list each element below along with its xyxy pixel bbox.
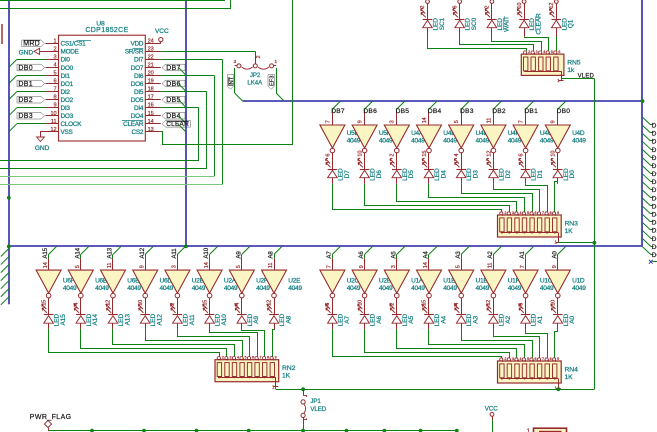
svg-text:A8: A8 xyxy=(285,315,292,323)
junction bottom rail JP1 xyxy=(301,429,305,432)
pin 6 (DO1) of U8 xyxy=(46,79,74,88)
bus entry + net label A15 xyxy=(42,246,56,258)
junction on left bus xyxy=(7,196,11,200)
svg-text:4049: 4049 xyxy=(379,285,393,292)
svg-text:5: 5 xyxy=(53,71,56,77)
net label INT (vertical, at JP2) xyxy=(227,75,235,90)
svg-text:2: 2 xyxy=(53,46,56,52)
svg-text:4049: 4049 xyxy=(127,285,141,292)
svg-text:2: 2 xyxy=(222,356,224,360)
svg-text:9: 9 xyxy=(139,265,145,268)
inverter U4C (4049) xyxy=(513,125,538,153)
LED A15 xyxy=(42,304,67,329)
inverter U1D output pin xyxy=(551,298,558,312)
svg-text:VLED: VLED xyxy=(578,74,595,80)
svg-text:VSS: VSS xyxy=(61,129,73,136)
svg-text:6: 6 xyxy=(252,356,254,360)
LED A13 xyxy=(106,304,131,329)
svg-text:A6: A6 xyxy=(376,315,383,323)
net label DB6 (U8 right) + bus entry xyxy=(162,80,186,91)
svg-text:Q1: Q1 xyxy=(568,19,575,28)
wire LED D4 to RN3 pin 5 xyxy=(429,184,525,212)
svg-text:MODE: MODE xyxy=(61,49,79,56)
wire LED A8 to RN2 pin 9 xyxy=(273,329,275,356)
svg-text:D1: D1 xyxy=(537,170,544,179)
svg-text:A15: A15 xyxy=(42,247,49,258)
LED A11 xyxy=(171,304,196,329)
svg-text:A4: A4 xyxy=(440,315,447,323)
bus entry right edge xyxy=(643,142,657,154)
value label U6E 4049 xyxy=(127,278,141,292)
svg-text:6: 6 xyxy=(535,357,537,361)
inverter U2A output pin xyxy=(202,298,209,312)
svg-text:A3: A3 xyxy=(455,251,462,259)
inverter U1E (4049) xyxy=(417,270,442,298)
svg-text:3: 3 xyxy=(172,265,178,268)
inverter U2A (4049) xyxy=(197,270,222,298)
power flag PWR_FLAG xyxy=(30,414,72,431)
inverter U2C output pin xyxy=(325,298,332,312)
svg-text:D2: D2 xyxy=(505,170,512,179)
svg-text:1K: 1K xyxy=(565,228,574,235)
svg-text:4049: 4049 xyxy=(411,138,425,145)
svg-text:5: 5 xyxy=(527,357,529,361)
svg-text:4049: 4049 xyxy=(572,138,586,145)
svg-text:8: 8 xyxy=(53,95,56,101)
wire RN4 common to rail xyxy=(558,387,560,390)
bus entry + net label DB3 xyxy=(460,101,474,115)
value label U4C 4049 xyxy=(540,130,554,144)
svg-text:A1: A1 xyxy=(519,251,526,259)
bus entry left bus bottom xyxy=(1,273,9,281)
svg-text:23: 23 xyxy=(148,46,154,52)
svg-text:CDP1852CE: CDP1852CE xyxy=(85,27,128,34)
pin 10 (DO3) of U8 xyxy=(46,111,74,120)
svg-text:DI3: DI3 xyxy=(61,105,71,112)
wire LED D2 to RN3 pin 7 xyxy=(494,184,540,212)
svg-text:A11: A11 xyxy=(189,314,196,325)
svg-text:2: 2 xyxy=(420,6,426,9)
value label U1B 4049 xyxy=(476,278,490,292)
inverter U5E (4049) xyxy=(320,125,345,153)
resistor network RN3 1K xyxy=(498,211,579,245)
pin 22 (DI7) of U8 xyxy=(134,54,161,63)
wire U8 pin 3 to left bus + bus entry xyxy=(9,59,46,67)
value label U5E 4049 xyxy=(347,130,361,144)
svg-text:1K: 1K xyxy=(565,374,574,381)
svg-text:A12: A12 xyxy=(157,314,164,326)
bus entry right edge xyxy=(643,166,657,178)
svg-text:5: 5 xyxy=(245,356,247,360)
bus entry + net label A12 xyxy=(139,246,153,258)
wire to inverter U1D input xyxy=(552,258,558,270)
svg-text:4049: 4049 xyxy=(192,285,206,292)
wire to inverter U2B input xyxy=(359,258,365,270)
LED D6 xyxy=(358,158,383,183)
svg-text:A10: A10 xyxy=(203,247,210,258)
wire U8 pin 20 to left edge xyxy=(0,76,215,177)
svg-text:2: 2 xyxy=(485,6,491,9)
pin 23 (SR/SR) of U8 xyxy=(125,46,161,55)
bus entry + net label DB1 xyxy=(524,101,538,115)
svg-text:DB1: DB1 xyxy=(18,81,33,88)
wire LED A3 to RN4 pin 6 xyxy=(462,329,533,358)
svg-text:A15: A15 xyxy=(60,314,67,326)
svg-text:DB5: DB5 xyxy=(166,97,181,104)
svg-text:DB2: DB2 xyxy=(18,97,33,104)
bus entry right edge xyxy=(643,125,657,137)
wire to inverter U6B input xyxy=(75,258,81,270)
svg-text:A5: A5 xyxy=(390,251,397,259)
svg-text:D9: D9 xyxy=(652,171,657,178)
component (cut off, bottom right) xyxy=(527,428,567,432)
junction JP1 / rail xyxy=(301,387,305,391)
svg-text:3: 3 xyxy=(536,50,538,54)
inverter U1C (4049) xyxy=(513,270,538,298)
inverter U6B (4049) xyxy=(68,270,93,298)
svg-text:2: 2 xyxy=(528,50,530,54)
power VCC (at U8 pin 24) xyxy=(155,28,169,44)
svg-text:7: 7 xyxy=(542,357,544,361)
net label DB4 (U8 right) + bus entry xyxy=(162,113,186,124)
svg-text:A0: A0 xyxy=(551,251,558,259)
svg-text:JP2: JP2 xyxy=(250,72,261,79)
svg-text:10: 10 xyxy=(517,3,523,9)
power VCC (bottom) xyxy=(485,406,499,432)
svg-text:A14: A14 xyxy=(92,314,99,326)
net label CLEAR (U8 pin 14) + bus entry xyxy=(162,121,191,132)
bus entry + net label A10 xyxy=(203,246,217,258)
svg-text:CLOCK: CLOCK xyxy=(61,121,83,128)
jumper JP1 VLED xyxy=(301,389,327,424)
value label U5F 4049 xyxy=(379,130,393,144)
svg-text:4049: 4049 xyxy=(476,285,490,292)
svg-text:DB3: DB3 xyxy=(18,113,33,120)
pin 20 (DI6) of U8 xyxy=(134,71,161,80)
svg-text:DO4: DO4 xyxy=(131,113,144,120)
wire LED A5 to RN4 pin 4 xyxy=(397,329,517,358)
pin 12 (VSS) of U8 xyxy=(46,127,73,136)
pin 21 (DO7) of U8 xyxy=(131,63,161,72)
bus entry left bus bottom xyxy=(1,265,9,273)
svg-text:14: 14 xyxy=(422,117,428,123)
svg-text:SR/SR: SR/SR xyxy=(125,49,144,56)
wire LED D3 to RN3 pin 6 xyxy=(462,184,533,212)
svg-text:U2E: U2E xyxy=(288,278,301,285)
value label U1C 4049 xyxy=(540,278,554,292)
svg-text:5: 5 xyxy=(454,120,460,123)
LED A14 xyxy=(74,304,99,329)
svg-text:RN3: RN3 xyxy=(565,220,579,227)
bus entry right edge xyxy=(643,231,657,243)
svg-text:CS2: CS2 xyxy=(132,129,144,136)
ground (at U8 pin 2) xyxy=(19,48,46,56)
svg-text:6: 6 xyxy=(53,79,56,85)
junction RN4 common / rail xyxy=(557,387,561,391)
wire to inverter U4E input xyxy=(454,113,461,125)
svg-text:10: 10 xyxy=(50,111,56,117)
junction VLED line / RN3 common xyxy=(593,241,597,245)
pin 17 (DO5) of U8 xyxy=(131,95,161,104)
inverter U4B (4049) xyxy=(417,125,442,153)
inverter U2E output pin xyxy=(267,298,275,312)
pin 24 (VDD) of U8 xyxy=(130,38,160,47)
svg-text:D3: D3 xyxy=(473,170,480,179)
svg-text:A7: A7 xyxy=(344,315,351,323)
pin 1 (CS1/CS1) of U8 xyxy=(46,38,92,47)
svg-text:VDD: VDD xyxy=(130,41,143,48)
value label U1A 4049 xyxy=(411,278,425,292)
wire to inverter U2E input xyxy=(268,258,274,270)
svg-text:4: 4 xyxy=(237,356,239,360)
svg-text:6: 6 xyxy=(519,154,525,157)
svg-text:D12: D12 xyxy=(652,147,657,154)
value label U2C 4049 xyxy=(347,278,361,292)
wire LED CLEAR to RN5 pin 5 xyxy=(525,36,549,51)
wire bottom rail xyxy=(48,431,457,432)
wire LED A6 to RN4 pin 3 xyxy=(365,329,510,358)
svg-text:A3: A3 xyxy=(473,315,480,323)
svg-text:2: 2 xyxy=(256,55,262,58)
inverter U4C output pin xyxy=(519,153,526,166)
svg-text:A10: A10 xyxy=(221,314,228,326)
bus: left vertical address bus xyxy=(8,0,10,304)
svg-text:20: 20 xyxy=(148,71,154,77)
bus entry left bus bottom xyxy=(1,289,9,297)
wire JP2 pin 3 to middle bus + bus entry xyxy=(276,68,284,101)
svg-text:D11: D11 xyxy=(652,155,657,162)
svg-text:6: 6 xyxy=(558,50,560,54)
bus entry + net label A3 xyxy=(455,246,469,258)
svg-text:4049: 4049 xyxy=(508,285,522,292)
wire LED A0 to RN4 pin 9 xyxy=(555,329,558,358)
LED A12 xyxy=(138,304,163,329)
svg-text:5: 5 xyxy=(527,211,529,215)
LED WAIT (top row) with cut-off pin xyxy=(485,0,511,36)
svg-text:4049: 4049 xyxy=(443,285,457,292)
svg-text:D14: D14 xyxy=(652,131,657,138)
wire U8 pin 22 to left edge xyxy=(0,59,223,184)
svg-text:D10: D10 xyxy=(652,163,657,170)
junction bottom rail xyxy=(195,429,199,432)
wire LED A15 to RN2 pin 2 xyxy=(49,329,220,356)
svg-text:4049: 4049 xyxy=(288,285,302,292)
svg-text:MRD: MRD xyxy=(23,41,40,48)
pin 13 (CS2) of U8 xyxy=(132,127,161,136)
svg-text:16: 16 xyxy=(148,103,154,109)
junction right bus / middle bus xyxy=(641,99,645,103)
svg-text:D6: D6 xyxy=(376,170,383,179)
svg-text:A2: A2 xyxy=(487,251,494,259)
svg-text:15: 15 xyxy=(148,111,154,117)
svg-text:D13: D13 xyxy=(652,139,657,146)
bus entry + net label DB2 xyxy=(492,101,506,115)
svg-text:DB1: DB1 xyxy=(524,108,538,115)
wire LED Q1 to RN5 pin 6 xyxy=(556,36,558,51)
wire LED A1 to RN4 pin 8 xyxy=(526,329,548,358)
svg-text:SC1: SC1 xyxy=(439,17,446,30)
svg-text:DO1: DO1 xyxy=(61,81,74,88)
svg-text:A9: A9 xyxy=(235,251,242,259)
svg-text:DI6: DI6 xyxy=(134,73,144,80)
svg-text:24: 24 xyxy=(148,38,154,44)
wire JP2 pin 1 to middle bus + bus entry xyxy=(235,68,243,101)
LED Q1 (top row) with cut-off pin xyxy=(549,0,575,36)
bus: bottom horizontal address bus xyxy=(9,245,643,247)
svg-text:DI2: DI2 xyxy=(61,89,71,96)
svg-text:VCC: VCC xyxy=(155,28,169,35)
svg-text:A14: A14 xyxy=(74,247,81,258)
wire LED A2 to RN4 pin 7 xyxy=(494,329,540,358)
svg-text:6: 6 xyxy=(452,6,458,9)
svg-text:3: 3 xyxy=(512,357,514,361)
wire to inverter U1F input xyxy=(488,258,494,270)
svg-text:7: 7 xyxy=(542,211,544,215)
LED A10 xyxy=(203,304,228,329)
wire to inverter U2C input xyxy=(327,258,333,270)
bus entry right edge xyxy=(643,117,657,129)
svg-text:4: 4 xyxy=(454,154,460,157)
svg-text:D8: D8 xyxy=(652,179,657,186)
value label U6B 4049 xyxy=(95,278,109,292)
svg-text:A8: A8 xyxy=(268,251,275,259)
bus entry + net label A1 xyxy=(519,246,533,258)
svg-text:4049: 4049 xyxy=(572,285,586,292)
wire U8 pin 11 to left bus + bus entry xyxy=(9,124,46,132)
LED SC0 (top row) with cut-off pin xyxy=(452,0,478,36)
svg-text:4049: 4049 xyxy=(443,138,457,145)
pin 16 (DI4) of U8 xyxy=(134,103,161,112)
wire stub left edge (cut component) xyxy=(1,24,3,44)
wire U8 pin 18 to left edge xyxy=(0,92,207,169)
inverter U4D output pin xyxy=(551,151,558,166)
svg-text:6: 6 xyxy=(535,211,537,215)
wire LED D7 to RN3 pin 2 xyxy=(333,184,502,212)
inverter U6D (4049) xyxy=(133,270,158,298)
svg-text:VCC: VCC xyxy=(485,406,499,413)
svg-text:4: 4 xyxy=(519,357,521,361)
svg-text:4: 4 xyxy=(519,211,521,215)
wire LED D0 to RN3 pin 9 xyxy=(555,182,558,212)
LED D3 xyxy=(454,158,479,183)
svg-text:LK4A: LK4A xyxy=(247,80,263,87)
inverter U2F output pin xyxy=(235,298,242,312)
inverter U1B (4049) xyxy=(449,270,474,298)
bus entry + net label A6 xyxy=(358,246,372,258)
svg-text:D5: D5 xyxy=(652,203,657,210)
svg-text:22: 22 xyxy=(148,54,154,60)
svg-text:A13: A13 xyxy=(107,247,114,258)
value label U2E 4049 xyxy=(288,278,302,292)
bus entry + net label A11 xyxy=(171,246,185,258)
inverter U4F (4049) xyxy=(481,125,506,153)
svg-text:A6: A6 xyxy=(358,251,365,259)
pin 19 (DO6) of U8 xyxy=(131,79,161,88)
svg-text:1K: 1K xyxy=(282,373,291,380)
wire LED A4 to RN4 pin 5 xyxy=(429,329,525,358)
svg-text:4: 4 xyxy=(543,50,545,54)
svg-text:13: 13 xyxy=(148,127,154,133)
inverter U1B output pin xyxy=(454,298,462,312)
svg-text:10: 10 xyxy=(551,151,557,157)
svg-text:DB0: DB0 xyxy=(557,108,571,115)
wire VLED bottom rail xyxy=(276,387,595,390)
wire VLED vertical xyxy=(594,79,596,390)
svg-text:DI5: DI5 xyxy=(134,89,144,96)
wire LED SC0 to RN5 pin 3 xyxy=(460,36,534,51)
value label U1E 4049 xyxy=(443,278,457,292)
svg-text:11: 11 xyxy=(107,263,113,269)
svg-text:DB4: DB4 xyxy=(428,108,442,115)
LED A6 xyxy=(358,304,383,329)
svg-text:10: 10 xyxy=(358,151,364,157)
bus: middle horizontal data bus xyxy=(243,100,643,102)
svg-text:D1: D1 xyxy=(652,236,657,243)
bus entry right edge xyxy=(643,150,657,162)
inverter U1A output pin xyxy=(390,298,397,312)
svg-text:D2: D2 xyxy=(652,228,657,235)
svg-text:INT: INT xyxy=(229,76,235,86)
svg-text:A9: A9 xyxy=(253,315,260,323)
svg-text:5: 5 xyxy=(236,265,242,268)
junction bottom rail xyxy=(419,429,423,432)
inverter U2B (4049) xyxy=(352,270,377,298)
junction bottom rail xyxy=(90,429,94,432)
svg-text:14: 14 xyxy=(43,262,49,268)
bus entry + net label DB5 xyxy=(396,101,410,115)
svg-text:5: 5 xyxy=(75,265,81,268)
svg-text:DI0: DI0 xyxy=(61,57,71,64)
inverter U4A (4049) xyxy=(384,125,409,153)
wire to inverter U2B input xyxy=(172,258,178,270)
inverter U2B output pin xyxy=(357,298,364,312)
inverter U1D (4049) xyxy=(545,270,570,298)
bus entry right edge xyxy=(643,190,657,202)
no-connect marker xyxy=(649,260,657,264)
bus entry + net label A13 xyxy=(107,246,121,258)
op-amp ... no: IC U8 CDP1852CE body xyxy=(59,21,146,141)
svg-text:D3: D3 xyxy=(652,220,657,227)
svg-text:CLEAR: CLEAR xyxy=(123,121,144,128)
inverter U6E (4049) xyxy=(101,270,126,298)
svg-text:CLEAR: CLEAR xyxy=(166,121,189,128)
wire LED A14 to RN2 pin 3 xyxy=(81,329,227,356)
svg-text:CLEAR: CLEAR xyxy=(536,13,543,35)
inverter U1F output pin xyxy=(486,298,493,312)
junction bottom rail xyxy=(247,429,251,432)
wire LED A10 to RN2 pin 7 xyxy=(210,329,258,356)
inverter U2B output pin xyxy=(170,298,177,312)
junction bottom rail xyxy=(383,429,387,432)
svg-text:8: 8 xyxy=(267,356,269,360)
svg-text:A1: A1 xyxy=(537,315,544,323)
LED A8 xyxy=(267,304,292,329)
wire LED D5 to RN3 pin 4 xyxy=(397,184,517,212)
net label DB7 (U8 right) + bus entry xyxy=(162,64,186,75)
bus entry + net label A4 xyxy=(423,246,437,258)
inverter U2F (4049) xyxy=(229,270,254,298)
svg-text:DB6: DB6 xyxy=(363,108,377,115)
LED D2 xyxy=(487,158,512,183)
svg-text:DB6: DB6 xyxy=(166,81,181,88)
svg-text:GND: GND xyxy=(19,49,34,56)
svg-text:A2: A2 xyxy=(505,315,512,323)
svg-text:8: 8 xyxy=(550,357,552,361)
svg-text:14: 14 xyxy=(423,262,429,268)
bus entry + net label A8 xyxy=(268,246,282,258)
wire U8 pin 23 to JP2 pin 2 xyxy=(161,51,256,53)
svg-text:D4: D4 xyxy=(440,170,447,179)
